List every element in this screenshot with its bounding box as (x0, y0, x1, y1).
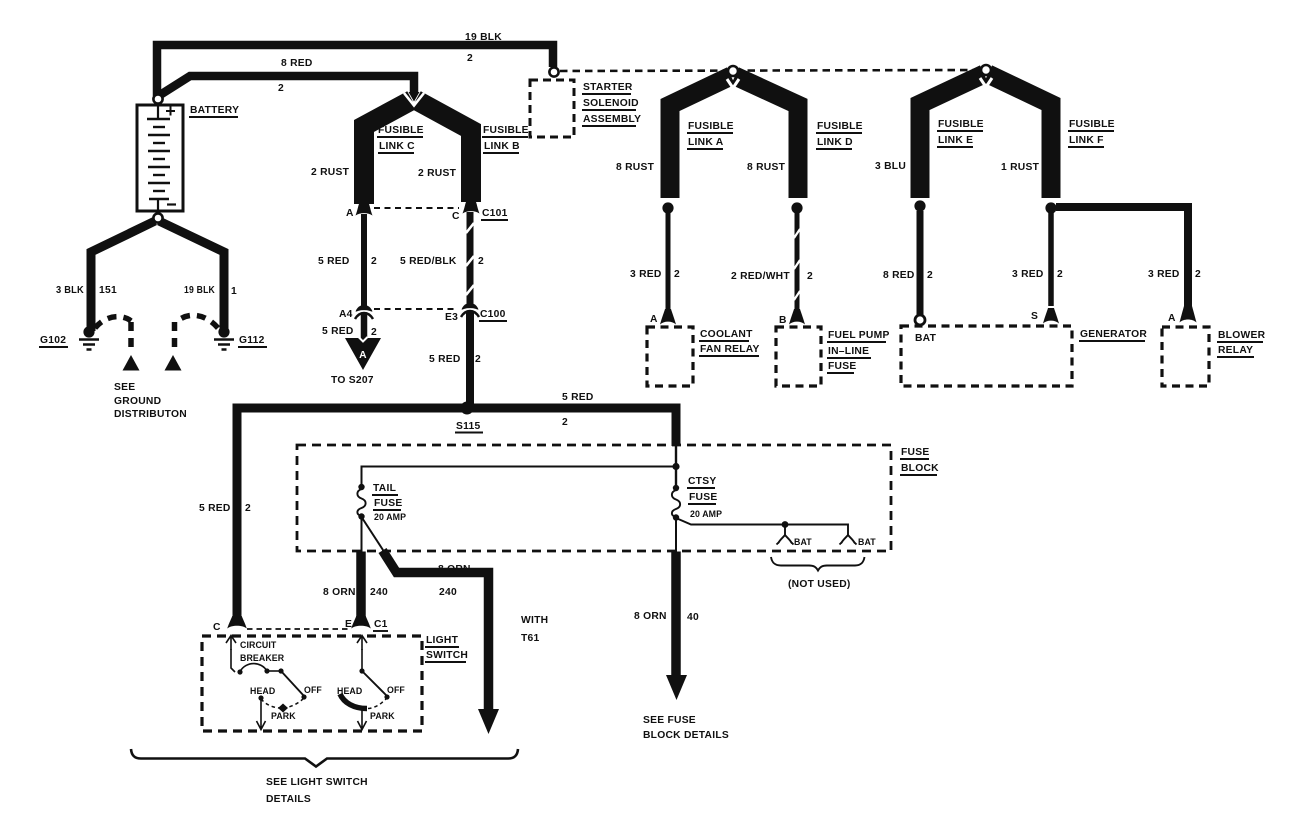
label BLOWER RELAY (1218, 330, 1266, 356)
svg-text:240: 240 (439, 587, 457, 598)
svg-text:LINK A: LINK A (688, 137, 724, 148)
label 1 RUST (1001, 162, 1040, 173)
off-page triangle left (123, 355, 140, 371)
label 2 RED/WHT 2 (731, 271, 813, 282)
svg-text:A: A (650, 314, 658, 325)
fusible link C band (364, 100, 412, 204)
svg-text:C: C (213, 622, 221, 633)
ctsy fuse (672, 485, 680, 521)
connector C100 dashed line (374, 308, 458, 310)
label SEE GROUND DISTRIBUTON (114, 382, 187, 420)
splice node under link E (914, 200, 925, 211)
label WITH T61 (521, 615, 548, 644)
label PARK right (370, 711, 395, 721)
svg-text:TO S207: TO S207 (331, 375, 374, 386)
svg-text:FUSIBLE: FUSIBLE (483, 125, 529, 136)
fusible link F band (988, 74, 1051, 198)
label FUSIBLE LINK A (688, 121, 734, 148)
svg-text:240: 240 (370, 587, 388, 598)
connector fork A at C101 (356, 204, 373, 216)
svg-text:BLOWER: BLOWER (1218, 330, 1266, 341)
svg-text:C101: C101 (482, 208, 508, 219)
label 2 RUST right (418, 168, 457, 179)
brace not used (771, 557, 865, 571)
label BATTERY (190, 105, 239, 116)
svg-text:C1: C1 (374, 619, 388, 630)
contact HEAD left (258, 695, 263, 700)
svg-text:FUEL PUMP: FUEL PUMP (828, 330, 890, 341)
label 8 ORN 40 (634, 611, 699, 623)
svg-text:SOLENOID: SOLENOID (583, 98, 639, 109)
svg-text:5 RED: 5 RED (318, 256, 350, 267)
svg-text:5 RED: 5 RED (429, 354, 461, 365)
battery (137, 104, 183, 211)
splice node under link F (1045, 202, 1056, 213)
generator box (901, 326, 1072, 386)
junction node BAT branch (782, 521, 789, 528)
label BAT 2 (858, 537, 876, 547)
label A4 (339, 309, 353, 320)
wire 5 RED/BLK striped from C to E3 (466, 212, 474, 306)
svg-text:LINK C: LINK C (379, 141, 415, 152)
apex notch fusible links E/F (980, 78, 992, 87)
label 3 BLK 151 (56, 285, 117, 296)
svg-text:FUSE: FUSE (374, 498, 402, 509)
svg-text:2: 2 (674, 269, 680, 280)
svg-text:3 RED: 3 RED (1012, 269, 1044, 280)
entry arrow right into light switch (357, 636, 367, 651)
arrowhead with T61 wire (478, 709, 499, 734)
svg-text:T61: T61 (521, 633, 540, 644)
label 19 BLK 1 (184, 285, 237, 297)
label 19 BLK (465, 32, 502, 64)
svg-text:BATTERY: BATTERY (190, 105, 239, 116)
wire to right switch pivot (361, 649, 363, 671)
svg-text:FUSIBLE: FUSIBLE (938, 119, 984, 130)
label 8 RUST right (747, 162, 786, 173)
starter solenoid node (549, 67, 558, 76)
label E (345, 619, 352, 630)
blower relay box (1162, 327, 1209, 386)
connector fork A coolant fan relay (660, 309, 676, 325)
contact OFF left (301, 694, 306, 699)
svg-text:DETAILS: DETAILS (266, 794, 311, 805)
svg-text:5 RED: 5 RED (562, 392, 594, 403)
svg-text:8 ORN: 8 ORN (323, 587, 356, 598)
connector fork BAT 1 (777, 535, 794, 545)
head output arrow right (358, 709, 367, 730)
svg-text:3 BLU: 3 BLU (875, 161, 906, 172)
label 5 RED 2 mid (429, 354, 481, 365)
svg-text:2: 2 (371, 256, 377, 267)
connector fork E light switch (351, 616, 371, 629)
svg-text:LIGHT: LIGHT (426, 635, 459, 646)
svg-text:151: 151 (99, 285, 117, 296)
fusible link B band (416, 100, 471, 202)
connector fork C light switch (227, 616, 247, 629)
ground node G102 (83, 326, 94, 337)
connector dashed line C to E (247, 628, 350, 630)
labels HEAD OFF left (250, 685, 322, 696)
dashed jumper from G102 (95, 317, 131, 352)
off-page triangle right (165, 355, 182, 371)
label 5 RED 2 left vertical (199, 503, 251, 514)
wire 5 RED bus through S115 (237, 408, 676, 618)
label 8 RED (278, 58, 313, 94)
label GENERATOR (1080, 329, 1147, 340)
svg-text:C100: C100 (480, 309, 506, 320)
label FUSIBLE LINK B (483, 125, 529, 152)
svg-text:E3: E3 (445, 312, 458, 323)
label BAT 1 (794, 537, 812, 547)
svg-text:G102: G102 (40, 335, 66, 346)
svg-text:FUSIBLE: FUSIBLE (378, 125, 424, 136)
label C100 (480, 309, 506, 320)
wire to first BAT terminal (784, 524, 786, 535)
connector fork S generator (1043, 308, 1059, 324)
svg-text:20 AMP: 20 AMP (690, 509, 722, 519)
svg-text:LINK E: LINK E (938, 135, 973, 146)
wire fuse feed bus inside fuse block (362, 467, 677, 487)
svg-text:FUSIBLE: FUSIBLE (1069, 119, 1115, 130)
dashed park arc left with diamond (261, 698, 304, 708)
svg-text:S: S (1031, 311, 1038, 322)
svg-text:A4: A4 (339, 309, 353, 320)
wire 5 RED E3 to S115 (466, 312, 474, 406)
svg-text:40: 40 (687, 612, 699, 623)
connector fork A4 (355, 305, 373, 319)
label C (452, 211, 460, 222)
coolant fan relay box (647, 327, 693, 386)
connector fork BAT 2 (840, 535, 857, 545)
svg-text:2 RUST: 2 RUST (311, 167, 350, 178)
svg-text:SEE: SEE (114, 382, 135, 393)
node at fusible link A/D apex (728, 66, 738, 76)
splice node under link D (791, 202, 802, 213)
svg-text:LINK B: LINK B (484, 141, 520, 152)
svg-text:FUSIBLE: FUSIBLE (817, 121, 863, 132)
svg-text:8 RED: 8 RED (883, 270, 915, 281)
wire 3 RED to coolant fan relay (666, 212, 671, 309)
svg-text:2: 2 (1195, 269, 1201, 280)
label G112 (239, 335, 265, 346)
wire 19 BLK battery to starter solenoid (157, 45, 553, 96)
label 8 ORN above branch (438, 564, 471, 575)
label 3 RED 2 generator (1012, 269, 1063, 280)
svg-text:5 RED: 5 RED (199, 503, 231, 514)
wire 8 ORN ctsy fuse down to fuse block details (675, 518, 677, 552)
svg-text:C: C (452, 211, 460, 222)
label LIGHT SWITCH (426, 635, 468, 661)
svg-text:1 RUST: 1 RUST (1001, 162, 1040, 173)
svg-text:SEE FUSE: SEE FUSE (643, 715, 696, 726)
wire 8 RED to generator BAT (917, 211, 924, 315)
ring terminal BAT generator (915, 315, 925, 325)
contact OFF right (384, 694, 389, 699)
svg-text:2: 2 (478, 256, 484, 267)
svg-text:(NOT USED): (NOT USED) (788, 579, 851, 590)
arrow A to S207 (345, 337, 381, 370)
svg-text:2: 2 (562, 417, 568, 428)
svg-text:GROUND: GROUND (114, 396, 161, 407)
svg-text:OFF: OFF (304, 685, 322, 695)
starter solenoid assembly box (530, 80, 574, 137)
label 5 RED 2 right of S115 (562, 392, 594, 428)
svg-text:SWITCH: SWITCH (426, 650, 468, 661)
svg-text:FUSE: FUSE (901, 447, 929, 458)
label COOLANT FAN RELAY (700, 329, 760, 355)
node at fusible link E/F apex (981, 65, 991, 75)
svg-text:LINK D: LINK D (817, 137, 853, 148)
label 8 RUST left (616, 162, 655, 173)
label STARTER SOLENOID ASSEMBLY (583, 82, 641, 125)
svg-text:2 RED/WHT: 2 RED/WHT (731, 271, 790, 282)
svg-text:RELAY: RELAY (1218, 345, 1253, 356)
wiper thick arc right (340, 694, 367, 709)
label G102 (40, 335, 66, 346)
label TO S207 (331, 375, 374, 386)
svg-text:COOLANT: COOLANT (700, 329, 753, 340)
label FUEL PUMP IN-LINE FUSE (828, 330, 890, 372)
ground node G112 (218, 326, 229, 337)
label BAT inside generator (915, 333, 937, 344)
svg-text:5 RED: 5 RED (322, 326, 354, 337)
splice S115 (461, 402, 474, 415)
label SEE FUSE BLOCK DETAILS (643, 715, 729, 741)
svg-text:PARK: PARK (370, 711, 395, 721)
dashed bus line to fusible link apexes (560, 70, 980, 71)
svg-text:3 RED: 3 RED (630, 269, 662, 280)
svg-text:2: 2 (927, 270, 933, 281)
label 5 RED 2 (318, 256, 377, 267)
label C1 (374, 619, 388, 630)
svg-text:IN–LINE: IN–LINE (828, 346, 869, 357)
fuse block box (297, 445, 891, 551)
label SEE LIGHT SWITCH DETAILS (266, 777, 368, 805)
label 2 RUST left (311, 167, 350, 178)
ground symbol G112 (214, 340, 234, 350)
svg-text:SEE LIGHT SWITCH: SEE LIGHT SWITCH (266, 777, 368, 788)
svg-text:2: 2 (278, 83, 284, 94)
switch blade left to OFF (281, 671, 304, 696)
label S (1031, 311, 1038, 322)
svg-text:G112: G112 (239, 335, 265, 346)
svg-text:STARTER: STARTER (583, 82, 633, 93)
svg-text:S115: S115 (456, 421, 481, 432)
svg-text:2: 2 (475, 354, 481, 365)
svg-text:A: A (1168, 313, 1176, 324)
dashed jumper from G112 (175, 315, 219, 352)
label FUSIBLE LINK C (378, 125, 424, 152)
connector C101 dashed line (374, 207, 459, 209)
label 3 RED 2 (630, 269, 680, 280)
connector fork A blower relay (1180, 306, 1197, 323)
apex notch fusible links A/D (727, 79, 739, 88)
svg-text:FUSE: FUSE (689, 492, 717, 503)
label CTSY FUSE 20 AMP (688, 476, 722, 519)
svg-text:20 AMP: 20 AMP (374, 512, 406, 522)
svg-text:BLOCK: BLOCK (901, 463, 939, 474)
svg-text:WITH: WITH (521, 615, 548, 626)
fusible link A band (670, 76, 731, 198)
svg-text:8 RUST: 8 RUST (616, 162, 655, 173)
svg-text:3 RED: 3 RED (1148, 269, 1180, 280)
svg-text:19 BLK: 19 BLK (184, 285, 215, 296)
label CIRCUIT BREAKER (240, 640, 285, 663)
svg-text:1: 1 (231, 286, 237, 297)
svg-text:5 RED/BLK: 5 RED/BLK (400, 256, 457, 267)
svg-text:ASSEMBLY: ASSEMBLY (583, 114, 641, 125)
label A blower (1168, 313, 1176, 324)
label FUSIBLE LINK E (938, 119, 984, 146)
pivot contact right (359, 668, 364, 673)
svg-text:8 RUST: 8 RUST (747, 162, 786, 173)
fuel pump in-line fuse box (776, 327, 821, 386)
wire 5 RED from A to A4 (361, 214, 367, 308)
label E3 (445, 312, 458, 323)
svg-text:2: 2 (1057, 269, 1063, 280)
battery positive terminal node (153, 94, 162, 103)
connector fork C at C101 (463, 202, 480, 214)
label PARK left (271, 711, 296, 721)
fusible link D band (735, 76, 798, 198)
labels 8 ORN 240 240 (323, 587, 457, 598)
svg-text:CTSY: CTSY (688, 476, 716, 487)
arrowhead see fuse block details (666, 675, 687, 700)
junction node ctsy feed (672, 463, 679, 470)
svg-text:DISTRIBUTON: DISTRIBUTON (114, 409, 187, 420)
wire ctsy fuse to BAT terminals (not used) (676, 518, 848, 535)
label 3 BLU (875, 161, 906, 172)
switch blade right to OFF (362, 671, 387, 696)
splice node under link A (662, 202, 673, 213)
svg-text:A: A (346, 208, 354, 219)
dashed park arc right (368, 698, 387, 709)
svg-text:2: 2 (467, 53, 473, 64)
wire 2 RED/WHT striped to fuel pump fuse (794, 212, 800, 309)
label NOT USED (788, 579, 851, 590)
park diamond left (278, 704, 288, 713)
labels HEAD OFF right (337, 685, 405, 696)
label 3 RED 2 blower (1148, 269, 1201, 280)
wire 8 RED battery to fusible links C/B (160, 76, 414, 95)
svg-text:FAN RELAY: FAN RELAY (700, 344, 760, 355)
label FUSIBLE LINK F (1069, 119, 1115, 146)
svg-text:BAT: BAT (794, 537, 812, 547)
wire 3 RED link F to blower relay (1056, 207, 1188, 307)
svg-text:2: 2 (245, 503, 251, 514)
fusible link E band (920, 74, 984, 198)
svg-text:BREAKER: BREAKER (240, 653, 285, 663)
wire 8 ORN tail fuse down to light switch E (356, 552, 366, 618)
connector fork E3 (461, 303, 479, 317)
label C101 (482, 208, 508, 219)
svg-text:TAIL: TAIL (373, 483, 396, 494)
ground symbol G102 (79, 340, 99, 350)
circuit breaker (231, 649, 284, 675)
svg-text:A: A (359, 350, 367, 361)
label 5 RED 2 below A4 (322, 326, 377, 338)
svg-text:8 ORN: 8 ORN (438, 564, 471, 575)
svg-text:B: B (779, 315, 787, 326)
label C (213, 622, 221, 633)
svg-text:2 RUST: 2 RUST (418, 168, 457, 179)
label A (650, 314, 658, 325)
label A (346, 208, 354, 219)
head output arrow left (257, 700, 266, 730)
svg-text:FUSE: FUSE (828, 361, 856, 372)
label 8 RED 2 (883, 270, 933, 281)
svg-text:GENERATOR: GENERATOR (1080, 329, 1147, 340)
svg-text:BAT: BAT (858, 537, 876, 547)
apex notch arrow fusible links C/B (404, 92, 424, 106)
wire 8 ORN tail fuse branch to arrow with T61 (362, 517, 489, 711)
label S115 (456, 421, 481, 432)
svg-text:2: 2 (371, 327, 377, 338)
label B (779, 315, 787, 326)
svg-text:HEAD: HEAD (250, 686, 275, 696)
svg-text:19 BLK: 19 BLK (465, 32, 502, 43)
svg-text:2: 2 (807, 271, 813, 282)
wire battery negative to grounds (91, 221, 224, 331)
wire 3 RED to generator S (1048, 212, 1054, 306)
tail fuse (357, 484, 365, 520)
svg-text:CIRCUIT: CIRCUIT (240, 640, 277, 650)
light switch box (202, 636, 422, 731)
svg-text:LINK F: LINK F (1069, 135, 1104, 146)
entry arrow left into light switch (226, 636, 236, 651)
svg-text:PARK: PARK (271, 711, 296, 721)
label 5 RED/BLK 2 (400, 256, 484, 267)
svg-text:OFF: OFF (387, 685, 405, 695)
svg-text:8 ORN: 8 ORN (634, 611, 667, 622)
svg-text:BAT: BAT (915, 333, 937, 344)
label FUSE BLOCK (901, 447, 939, 474)
svg-text:8 RED: 8 RED (281, 58, 313, 69)
svg-text:BLOCK DETAILS: BLOCK DETAILS (643, 730, 729, 741)
svg-text:3 BLK: 3 BLK (56, 285, 84, 296)
label FUSIBLE LINK D (817, 121, 863, 148)
connector fork B fuel pump fuse (789, 309, 805, 325)
wire 5 RED A4 to arrow (361, 314, 368, 340)
brace see light switch details (131, 749, 518, 767)
label TAIL FUSE 20 AMP (373, 483, 406, 522)
svg-text:FUSIBLE: FUSIBLE (688, 121, 734, 132)
battery negative terminal node (153, 213, 162, 222)
